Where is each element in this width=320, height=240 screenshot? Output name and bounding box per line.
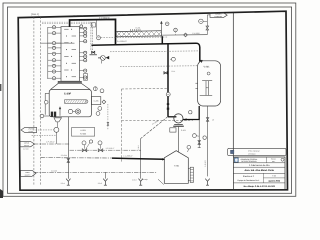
svg-text:2-P-207: 2-P-207 bbox=[204, 160, 207, 166]
instrument FI top bbox=[97, 36, 101, 40]
svg-text:FV-205: FV-205 bbox=[80, 133, 86, 136]
instrument L1 bbox=[48, 26, 61, 28]
svg-text:[Des.1]: [Des.1] bbox=[31, 13, 39, 16]
svg-text:Asm. Ind. Alva Mend. Parte: Asm. Ind. Alva Mend. Parte bbox=[244, 169, 274, 172]
bottoms valve bbox=[67, 159, 70, 163]
instrument L8 bbox=[48, 71, 61, 73]
valve inst 3 bbox=[89, 140, 92, 143]
instrument c2 bbox=[100, 89, 104, 93]
air cooler E-201 bbox=[116, 31, 161, 37]
svg-text:2-D-3: 2-D-3 bbox=[132, 179, 136, 182]
standpipe bbox=[44, 93, 46, 114]
instrument c4 bbox=[98, 107, 102, 111]
svg-text:F-05: F-05 bbox=[272, 174, 276, 177]
left drain line bbox=[40, 115, 50, 117]
svg-text:1 Emision: 1 Emision bbox=[248, 153, 255, 156]
instrument mid bbox=[172, 57, 176, 61]
svg-text:E-201: E-201 bbox=[136, 26, 141, 29]
dotted tracing line 2 bbox=[42, 23, 93, 25]
vessel drain 1 bbox=[198, 120, 200, 148]
label box bbox=[72, 128, 95, 137]
steam line right bbox=[70, 149, 141, 151]
svg-text:DE ELECTRICIDAD: DE ELECTRICIDAD bbox=[241, 160, 257, 163]
reboiler vessel C-20F bbox=[49, 90, 91, 117]
vessel internals bbox=[205, 81, 207, 96]
Y drain 3 bbox=[140, 181, 142, 185]
dotted tracing drop 2 bbox=[92, 24, 94, 50]
PI stub bbox=[175, 32, 177, 35]
steam line left bbox=[34, 143, 70, 145]
instrument R4 bbox=[80, 40, 88, 42]
steam trap bbox=[101, 56, 106, 61]
signal line B bbox=[120, 65, 198, 68]
vapor relief line bbox=[162, 34, 208, 36]
pump discharge bbox=[177, 127, 179, 153]
left instrument header bbox=[47, 27, 49, 79]
bottoms line bbox=[67, 117, 69, 179]
tank T-201 bbox=[164, 151, 188, 184]
dotted tracing drop 1 bbox=[90, 22, 92, 50]
divider line bbox=[232, 13, 234, 158]
feed line bbox=[41, 42, 75, 44]
drop to Y2 bbox=[104, 172, 106, 178]
diamond c3 bbox=[102, 100, 106, 104]
pump P-201 bbox=[174, 114, 183, 123]
vent arrow bbox=[160, 23, 162, 31]
tube bundle bbox=[65, 100, 87, 104]
pump base bbox=[174, 123, 183, 125]
vessel internal circle bbox=[207, 72, 210, 75]
pump instrument bbox=[189, 111, 192, 114]
column trays bbox=[64, 28, 68, 30]
corner scan mark bbox=[0, 189, 3, 198]
instrument L5 bbox=[48, 53, 61, 55]
relief valve riser bbox=[206, 15, 208, 27]
svg-text:2-Fabricacion de Alta: 2-Fabricacion de Alta bbox=[249, 164, 270, 167]
steam valve 1 bbox=[82, 149, 87, 152]
product line dashdot left bbox=[41, 157, 112, 159]
svg-text:150 PSI: 150 PSI bbox=[24, 145, 30, 147]
svg-text:2-P-210-2": 2-P-210-2" bbox=[106, 147, 115, 150]
left drain gauge bbox=[40, 114, 44, 118]
instrument R6 bbox=[80, 56, 88, 58]
instrument R2 bbox=[80, 32, 88, 34]
svg-text:LI-204: LI-204 bbox=[80, 129, 85, 132]
tank roof instrument bbox=[187, 145, 191, 149]
Y drain 2 bbox=[104, 181, 106, 185]
instrument L2 bbox=[48, 32, 61, 34]
signal line A bbox=[101, 36, 168, 39]
svg-text:2-D-1: 2-D-1 bbox=[61, 182, 65, 185]
instrument TI bbox=[165, 22, 169, 26]
battery limit line right bbox=[40, 17, 42, 186]
signal from A bbox=[35, 129, 53, 131]
middle border bbox=[8, 7, 292, 193]
svg-text:C-205: C-205 bbox=[94, 100, 99, 103]
instrument R3 bbox=[80, 35, 88, 37]
instrument R9 bbox=[80, 77, 88, 79]
vessel nozzle ticks bbox=[195, 82, 197, 84]
svg-text:Equipo de Destilacion No 4: Equipo de Destilacion No 4 bbox=[238, 179, 260, 182]
svg-text:No. dibujo: 2-04-1-077/P-FD-00: No. dibujo: 2-04-1-077/P-FD-003 bbox=[244, 185, 276, 188]
dashed boundary mid bbox=[122, 119, 194, 122]
riser flange marks bbox=[167, 103, 169, 105]
trap discharge arrow bbox=[106, 56, 110, 60]
riser pipe thick bbox=[167, 44, 169, 117]
svg-text:V-201: V-201 bbox=[203, 65, 210, 68]
svg-text:Drenaje: Drenaje bbox=[141, 178, 147, 181]
standpipe gauge bbox=[44, 100, 48, 104]
instrument L3 bbox=[48, 42, 61, 44]
valve inst 2 bbox=[98, 141, 102, 145]
instrument c5 bbox=[96, 112, 100, 116]
column top nozzle circle bbox=[80, 25, 83, 28]
outlet valve LV bbox=[206, 118, 209, 122]
band outlet thick bbox=[161, 36, 163, 44]
FI branch line bbox=[96, 20, 98, 36]
outer border bbox=[3, 3, 296, 196]
column C-201 shell bbox=[61, 27, 80, 81]
instrument PI bbox=[174, 28, 178, 32]
accumulator V-201 bbox=[198, 61, 221, 106]
riser side valve bbox=[164, 72, 167, 74]
Y drain 4 bbox=[207, 181, 209, 185]
cooler fins bbox=[130, 29, 132, 31]
svg-text:2-D-2: 2-D-2 bbox=[98, 182, 102, 185]
dashed boundary vertical bbox=[121, 89, 123, 162]
title right cell bbox=[266, 157, 268, 163]
instrument R7 bbox=[80, 59, 88, 61]
dashed drop right bbox=[107, 104, 109, 122]
channel box C-205 bbox=[91, 97, 100, 105]
drawing frame bbox=[18, 11, 287, 190]
svg-text:P-201: P-201 bbox=[181, 129, 186, 132]
heater boxes bbox=[51, 112, 53, 117]
instrument L6 bbox=[48, 59, 61, 61]
svg-text:Practica # 2: Practica # 2 bbox=[243, 175, 255, 178]
drain header dashdot bbox=[34, 171, 156, 173]
svg-text:2-L-2004-3": 2-L-2004-3" bbox=[117, 40, 127, 43]
gauge pair bbox=[68, 109, 72, 113]
steam valve 2 bbox=[98, 149, 103, 152]
instrument R5 bbox=[80, 52, 88, 54]
pump suction pipe bbox=[183, 106, 199, 120]
product pipe thick bbox=[112, 158, 164, 159]
signal line C bbox=[110, 50, 200, 53]
edge scan mark bbox=[0, 84, 1, 91]
svg-text:agosto 2004: agosto 2004 bbox=[268, 179, 280, 182]
vessel outlet to flare bbox=[207, 106, 209, 176]
valve inst 1 bbox=[82, 141, 86, 145]
instrument L4 bbox=[48, 47, 61, 49]
funnel trap circle bbox=[54, 127, 59, 132]
psv box stack bbox=[84, 74, 88, 77]
drain diagonal bbox=[141, 117, 168, 139]
battery limit line left bbox=[33, 17, 35, 186]
svg-text:2-V-2003: 2-V-2003 bbox=[192, 32, 199, 35]
instrument L7 bbox=[48, 65, 61, 67]
svg-text:2-P-205-2": 2-P-205-2" bbox=[46, 140, 55, 143]
off-page connector B bbox=[20, 141, 35, 146]
svg-text:ABIERTO: ABIERTO bbox=[25, 174, 31, 176]
tank level gauge bbox=[190, 167, 193, 182]
instrument L9 bbox=[48, 77, 61, 79]
dashed boundary top bbox=[122, 87, 169, 90]
svg-text:2-L-2006-2": 2-L-2006-2" bbox=[123, 154, 133, 157]
signal under A bbox=[32, 134, 56, 136]
instrument on riser bbox=[166, 92, 170, 96]
drain leader bbox=[158, 179, 164, 184]
svg-text:2 Rev. General: 2 Rev. General bbox=[248, 150, 260, 153]
riser foot to pump bbox=[168, 116, 176, 118]
pump motor box bbox=[170, 128, 176, 132]
valve controller circle bbox=[199, 19, 203, 23]
instrument R1 bbox=[80, 28, 88, 30]
overhead vapor pipe bbox=[70, 19, 116, 45]
tracing junction box bbox=[92, 23, 96, 27]
bottoms funnel bbox=[54, 118, 62, 122]
off-page connector C bbox=[21, 170, 37, 176]
gauge left bbox=[193, 134, 197, 138]
steam trap valve bbox=[92, 51, 95, 53]
off-page connector A bbox=[21, 127, 37, 132]
condensate pipe to accumulator bbox=[92, 43, 200, 61]
small valve pair bbox=[107, 122, 109, 125]
svg-text:2-D-209: 2-D-209 bbox=[51, 170, 57, 173]
Y3 feed vertical bbox=[140, 139, 142, 179]
skirt sides bbox=[51, 84, 91, 90]
up arrow bbox=[59, 108, 61, 116]
off-page connector D bbox=[210, 13, 227, 18]
Y drain 1 bbox=[67, 181, 69, 185]
title row4 bbox=[262, 173, 264, 183]
svg-text:C-20F: C-20F bbox=[64, 92, 72, 95]
title block bbox=[233, 157, 285, 190]
gauge right bbox=[203, 136, 206, 139]
svg-text:T-201: T-201 bbox=[174, 164, 180, 167]
inline diamond bbox=[184, 33, 188, 37]
svg-text:2-V-2001-6": 2-V-2001-6" bbox=[73, 15, 84, 18]
notes box bbox=[228, 148, 286, 155]
instrument R8 bbox=[80, 70, 88, 72]
column skirt band bbox=[58, 81, 82, 83]
dotted tracing line 1 bbox=[42, 21, 91, 23]
instrument c1 bbox=[93, 87, 97, 91]
drain1 valve bbox=[198, 141, 201, 145]
svg-text:2-D-204: 2-D-204 bbox=[61, 154, 67, 157]
title logo bbox=[234, 158, 238, 162]
